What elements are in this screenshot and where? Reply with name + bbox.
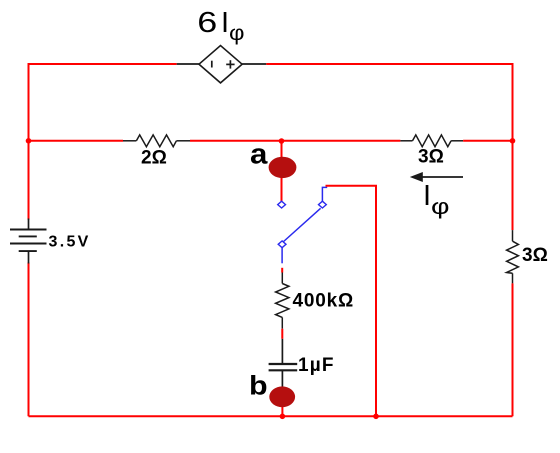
wire: right net lower (red): [512, 283, 514, 416]
capacitor C1 1uF: top lead: [281, 339, 283, 364]
battery V1: short plate 1: [19, 235, 37, 237]
wire: dependent source left lead (black): [177, 63, 199, 65]
junction: node b at bottom: [280, 414, 286, 420]
resistor R3 3ohm right: top lead: [512, 230, 514, 241]
svg-text:φ: φ: [229, 22, 245, 45]
wire: bottom net (red): [29, 415, 513, 417]
wire: right net upper (red): [512, 141, 514, 230]
arrow: Iphi current direction: [421, 176, 463, 178]
switch S1: terminal diamond 2 (right top): [319, 201, 327, 208]
wire: left net lower (red): [28, 263, 30, 417]
svg-text:φ: φ: [431, 194, 450, 219]
switch S1: stub above diamond 2 (blue elbow): [322, 187, 327, 201]
capacitor C1: bottom plate: [269, 369, 298, 371]
battery V1: short plate 2: [19, 250, 37, 252]
battery V1: long plate 2: [10, 243, 47, 245]
svg-text:a: a: [250, 138, 268, 170]
switch S1: terminal diamond 3 (bottom): [278, 241, 286, 248]
svg-text:I: I: [423, 180, 431, 212]
junction: mid vertical at bottom: [373, 414, 379, 420]
svg-text:3.5V: 3.5V: [49, 234, 91, 251]
battery V1 3.5V: top lead: [28, 219, 30, 230]
resistor R1 2ohm: zigzag: [136, 135, 176, 147]
svg-text:3Ω: 3Ω: [522, 245, 548, 266]
svg-text:I: I: [221, 7, 229, 39]
wire: middle horizontal net, seg 1 (red): [29, 140, 124, 142]
capacitor C1: top plate: [269, 363, 298, 365]
resistor R2 3ohm top: zigzag: [413, 135, 452, 147]
wire: middle horizontal net, seg 2 (red): [190, 140, 400, 142]
capacitor C1: bottom lead: [281, 370, 283, 390]
resistor R4 400k: top lead: [281, 273, 283, 284]
resistor R3 3ohm right: bottom lead: [512, 273, 514, 283]
wire: node a branch (red): [281, 141, 283, 201]
wire: node b to bottom net (red): [281, 396, 283, 416]
resistor R4 400k: bottom lead: [281, 317, 283, 328]
node b: dot: [269, 386, 295, 407]
resistor R2 3ohm top: right lead: [451, 140, 463, 142]
wire: dependent source right lead (black): [242, 63, 266, 65]
dependent source U1: diamond 6Iphi: [199, 46, 242, 83]
svg-text:400kΩ: 400kΩ: [293, 291, 355, 312]
svg-text:2Ω: 2Ω: [141, 148, 167, 169]
dependent source U1: plus polarity mark: [226, 63, 234, 65]
resistor R1 2ohm: left lead: [123, 140, 136, 142]
resistor R1 2ohm: right lead: [176, 140, 190, 142]
dependent source U1: minus polarity mark (vertical bar): [211, 61, 213, 68]
resistor R3 3ohm right: zigzag: [507, 241, 519, 273]
wire: middle horizontal net, seg 3 (red): [463, 140, 512, 142]
wire: top net, right segment (red): [266, 64, 512, 141]
junction: right middle: [510, 138, 516, 144]
resistor R2 3ohm top: left lead: [400, 140, 412, 142]
battery V1: long plate 1: [10, 229, 47, 231]
svg-text:1µF: 1µF: [298, 355, 335, 376]
svg-text:6: 6: [197, 7, 217, 39]
wire: top net, left segment (red): [29, 64, 177, 141]
switch S1: terminal diamond 1 (left top): [278, 201, 286, 208]
wire: red stub below switch: [281, 268, 283, 273]
node a: dot: [269, 157, 297, 178]
resistor R4 400k: zigzag: [276, 284, 289, 318]
switch S1: stub below diamond 3 (blue): [281, 248, 283, 264]
wire: red segment between R4 and C1: [281, 329, 283, 339]
wire: switch to mid vertical (red): [326, 186, 377, 417]
junction: left middle: [26, 138, 32, 144]
junction: middle wire to node a: [279, 138, 285, 144]
svg-text:b: b: [249, 370, 268, 400]
battery V1: bottom lead: [28, 251, 30, 263]
switch S1: blade: [284, 208, 321, 241]
svg-text:3Ω: 3Ω: [418, 147, 444, 168]
wire: left net upper (red): [28, 141, 30, 220]
